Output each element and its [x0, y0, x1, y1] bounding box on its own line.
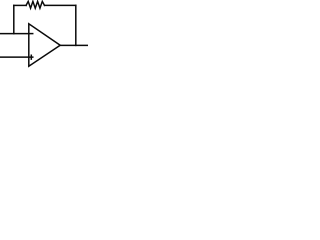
wire: non-inverting input from left edge	[0, 56, 29, 58]
wire: feedback vertical down to output	[75, 5, 77, 45]
op-amp minus label	[30, 33, 33, 35]
op-amp plus label	[30, 55, 33, 59]
op-amp U1 triangle	[29, 24, 60, 66]
resistor R1 (feedback)	[26, 1, 44, 8]
wire: top horizontal left segment	[14, 4, 26, 6]
wire: top horizontal right segment	[45, 4, 76, 6]
wire: output to right edge	[60, 44, 88, 46]
wire: feedback vertical up	[13, 5, 15, 33]
wire: inverting input from left edge	[0, 33, 29, 35]
